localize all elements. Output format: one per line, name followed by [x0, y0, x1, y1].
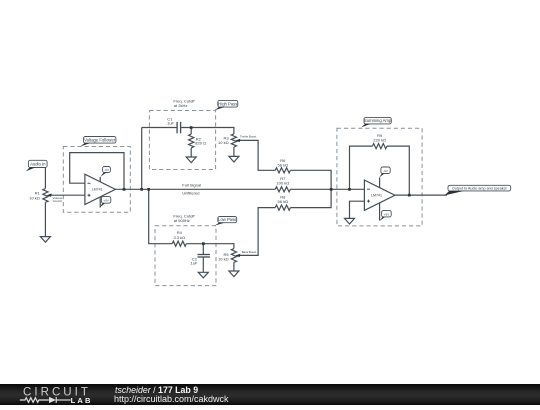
svg-text:LM741: LM741: [92, 188, 103, 192]
U1 V+ pin and -9V flag: [99, 177, 101, 182]
wire: high-pass input to C1: [142, 127, 177, 129]
svg-text:Unfiltered: Unfiltered: [182, 190, 199, 195]
potentiometer R1 10k volume control: [43, 189, 48, 203]
resistor R6 56k: [275, 168, 290, 173]
wire: U2 output to output flag: [395, 194, 447, 196]
svg-text:Low Pass: Low Pass: [218, 217, 236, 222]
ground below R2: [186, 157, 196, 163]
node junction: [123, 188, 126, 191]
svg-text:.1uF: .1uF: [189, 261, 198, 266]
flag: Output to Audio amp and speaker: [448, 185, 511, 191]
resistor R2 820 ohm: [189, 134, 194, 148]
svg-text:at 2kHz: at 2kHz: [174, 103, 188, 108]
potentiometer R3 10k treble boost: [231, 134, 236, 147]
wire: bus to R8 right: [290, 189, 331, 207]
op-amp U1 LM741 voltage follower: [85, 174, 116, 204]
annotation box: Voltage Follower: [63, 147, 130, 213]
U1 V- pin and +9V flag: [99, 197, 101, 207]
svg-text:10 kΩ: 10 kΩ: [29, 195, 40, 200]
svg-text:10 kΩ: 10 kΩ: [218, 140, 229, 145]
svg-text:LM741: LM741: [371, 193, 382, 197]
wire: C1 to R3 top: [181, 128, 234, 134]
wire: R1 wiper to U1 + input: [50, 194, 85, 196]
svg-text:LAB: LAB: [71, 396, 93, 405]
flag: Audio In: [28, 160, 47, 167]
flag: Low Pass: [218, 217, 237, 223]
wire: U2 feedback loop through R9: [350, 146, 373, 189]
svg-text:Output to Audio amp and speake: Output to Audio amp and speaker: [452, 187, 508, 191]
potentiometer R5 10k bass boost: [231, 249, 236, 263]
ground below R1: [40, 237, 50, 243]
resistor R9 220k feedback: [373, 144, 387, 149]
resistor R7 100k: [275, 187, 290, 192]
svg-text:Audio In: Audio In: [30, 162, 46, 167]
svg-text:220 kΩ: 220 kΩ: [373, 138, 386, 143]
capacitor C1 .1uF: [176, 122, 178, 133]
svg-text:820 Ω: 820 Ω: [195, 141, 206, 146]
wire: R8 left to R5 wiper (bass riser): [238, 208, 275, 256]
svg-text:Treble Boost: Treble Boost: [240, 135, 256, 139]
svg-text:Full Signal: Full Signal: [182, 182, 201, 187]
node junction: [140, 188, 143, 191]
wire: R5 bottom to ground: [233, 262, 235, 271]
svg-text:100 kΩ: 100 kΩ: [276, 181, 289, 186]
wire: R4 to R5 top: [186, 244, 234, 249]
wire: junction to R2 top: [190, 128, 192, 135]
svg-text:Summing Amp: Summing Amp: [364, 118, 392, 123]
node junction: [330, 188, 333, 191]
svg-text:.1uF: .1uF: [166, 121, 175, 126]
ground below R3: [229, 156, 239, 162]
wire: R3 wiper to R6 (treble riser): [239, 140, 275, 170]
resistor R8 56k: [275, 205, 290, 210]
wire: C2 bottom to ground: [202, 257, 204, 272]
wire: R1 bottom to ground: [44, 202, 46, 236]
op-amp U2 LM741 summing amp: [364, 180, 395, 210]
annotation box: High Pass: [149, 111, 215, 170]
annotation box: Low Pass: [155, 226, 216, 286]
wire: R7 right to summing node: [290, 188, 364, 190]
ground at U2 + input: [345, 218, 355, 224]
svg-text:High Pass: High Pass: [218, 101, 237, 106]
U2 V+ pin and -9V flag: [379, 178, 381, 188]
footer bar: [0, 384, 540, 405]
annotation box: Summing Amp: [337, 128, 422, 226]
flag: Voltage Follower: [84, 137, 116, 144]
svg-text:10 kΩ: 10 kΩ: [218, 257, 229, 262]
wire: riser to high-pass input: [141, 128, 143, 190]
wire: U2 + input to ground: [350, 201, 365, 218]
wire: R3 bottom to ground: [233, 147, 235, 156]
footer credit text: [115, 385, 198, 395]
svg-text:-9V: -9V: [383, 169, 388, 173]
wire: drop to low-pass input: [149, 189, 173, 243]
svg-text:56 kΩ: 56 kΩ: [278, 162, 289, 167]
wire: R6 right to bus: [290, 170, 331, 189]
node junction: [408, 194, 411, 197]
svg-text:+9V: +9V: [384, 212, 389, 216]
svg-text:+9V: +9V: [103, 199, 108, 203]
svg-text:Voltage Follower: Voltage Follower: [84, 137, 116, 142]
CircuitLab logo: [0, 384, 110, 405]
wire: Audio In flag to R1 top: [44, 168, 46, 189]
U2 V- pin and +9V flag: [379, 203, 381, 221]
wire: R2 bottom to ground: [190, 148, 192, 157]
svg-text:at 500Hz: at 500Hz: [174, 218, 190, 223]
ground below R5: [229, 271, 239, 277]
svg-text:-9V: -9V: [104, 168, 109, 172]
node junction: [190, 126, 193, 129]
svg-text:Control: Control: [53, 199, 63, 203]
svg-text:56 kΩ: 56 kΩ: [278, 199, 289, 204]
svg-text:Bass Boost: Bass Boost: [242, 250, 257, 254]
capacitor C2 .1uF: [198, 254, 211, 256]
ground below C2: [198, 272, 208, 278]
node junction: [202, 242, 205, 245]
flag: High Pass: [218, 100, 238, 107]
flag: Summing Amp: [364, 117, 391, 124]
node junction: [348, 188, 351, 191]
node junction: [147, 188, 150, 191]
svg-text:3.3 kΩ: 3.3 kΩ: [173, 235, 185, 240]
wire: main full-signal bus U1 output to R7: [115, 188, 275, 190]
wire: U1 feedback loop (output to - input): [70, 153, 124, 190]
resistor R4 3.3k: [172, 241, 186, 246]
wire: junction to C2 top: [202, 244, 204, 255]
